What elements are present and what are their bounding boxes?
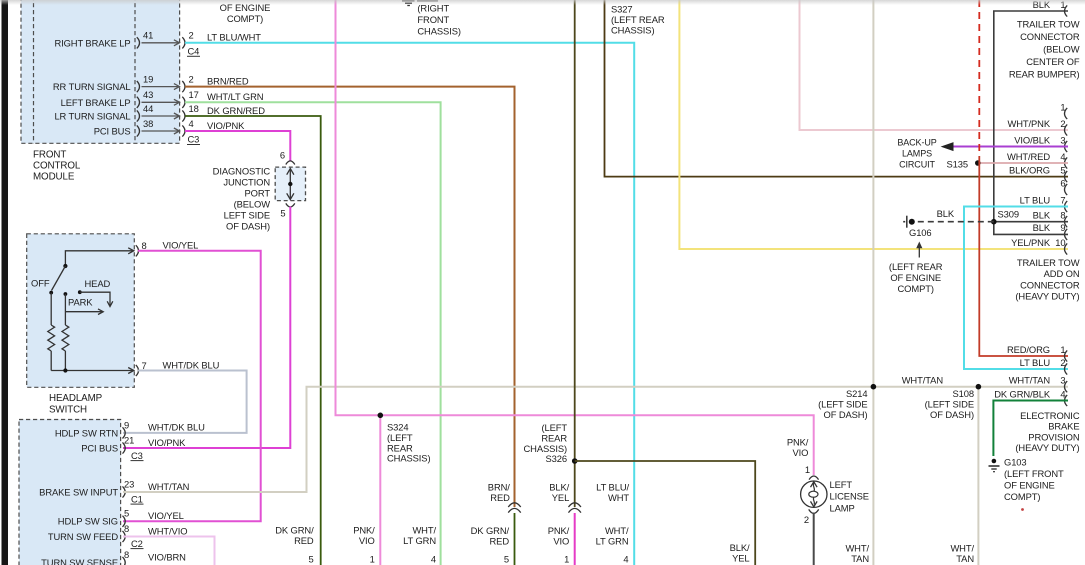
heavy duty connector pin 4 DK GRN/BLK	[1065, 395, 1068, 406]
svg-text:3: 3	[1060, 134, 1065, 145]
svg-text:1: 1	[1060, 101, 1065, 112]
svg-text:RR TURN SIGNAL: RR TURN SIGNAL	[53, 81, 131, 92]
DJP top connector arc	[286, 161, 295, 165]
svg-text:1: 1	[805, 464, 810, 475]
svg-text:RED: RED	[490, 492, 510, 503]
svg-text:8: 8	[1060, 210, 1065, 221]
svg-text:BLK: BLK	[1033, 222, 1051, 233]
svg-text:BLK/: BLK/	[549, 481, 569, 492]
svg-text:LT BLU/WHT: LT BLU/WHT	[207, 32, 261, 43]
svg-text:(LEFT: (LEFT	[541, 422, 567, 433]
trailer tow pin 7 LT BLU	[1065, 201, 1068, 212]
svg-text:2: 2	[1060, 357, 1065, 368]
HEAD arm with down arrow	[80, 292, 110, 306]
splice S108 dot	[976, 384, 982, 390]
left license lamp filament	[813, 483, 814, 491]
svg-text:DIAGNOSTIC: DIAGNOSTIC	[213, 166, 271, 177]
svg-text:WHT/TAN: WHT/TAN	[148, 481, 189, 492]
svg-text:BACK-UP: BACK-UP	[897, 138, 936, 148]
svg-text:19: 19	[143, 73, 153, 84]
wire LT BLU/WHT (FCM 2 -> bottom, x634)	[185, 43, 634, 565]
svg-text:BRAKE SW INPUT: BRAKE SW INPUT	[39, 486, 118, 497]
splice S108 vertical below	[977, 387, 979, 565]
wire BLK/YEL from top to S326	[574, 0, 576, 507]
trailer tow pin 8 BLK	[1065, 216, 1068, 227]
heavy duty connector pin 2 LT BLU	[1065, 363, 1068, 374]
svg-text:4: 4	[623, 554, 628, 565]
svg-text:RED/ORG: RED/ORG	[1007, 344, 1050, 355]
svg-text:7: 7	[1060, 194, 1065, 205]
wire WHT/DK BLU (switch 7 -> module 9)	[123, 371, 247, 433]
svg-text:FRONT: FRONT	[417, 14, 449, 25]
svg-text:WHT/TAN: WHT/TAN	[1009, 375, 1050, 386]
svg-text:WHT/LT GRN: WHT/LT GRN	[207, 91, 263, 102]
svg-text:5: 5	[504, 554, 509, 565]
front control module box fill	[21, 0, 180, 143]
trailer tow connector bracket wire BLK pin1 + bus	[994, 11, 1068, 222]
lower module box fill	[19, 420, 121, 565]
svg-text:18: 18	[189, 103, 199, 114]
wire DK GRN/BLK (pin 4 -> G103)	[993, 401, 1068, 457]
svg-text:5: 5	[1060, 164, 1065, 175]
trailer tow pin 1 BLK	[1065, 5, 1068, 16]
svg-text:RIGHT BRAKE LP: RIGHT BRAKE LP	[54, 37, 130, 48]
svg-text:TURN SW SENSE: TURN SW SENSE	[41, 557, 118, 565]
left license lamp top arc	[809, 476, 819, 480]
svg-text:CONNECTOR: CONNECTOR	[1020, 279, 1080, 290]
svg-text:G106: G106	[909, 227, 932, 238]
svg-text:PCI BUS: PCI BUS	[94, 126, 131, 137]
trailer tow pin 5 BLK/ORG	[1065, 171, 1068, 182]
svg-text:WHT/PNK: WHT/PNK	[1007, 118, 1050, 129]
PARK arm with right arrow	[65, 311, 102, 313]
svg-text:OF ENGINE: OF ENGINE	[1004, 480, 1055, 491]
svg-text:(LEFT: (LEFT	[387, 432, 413, 443]
heavy duty connector pin 1 RED/ORG	[1065, 350, 1068, 361]
svg-text:8: 8	[124, 549, 129, 560]
resistor right (PARK leg)	[62, 325, 69, 351]
svg-text:CHASSIS): CHASSIS)	[387, 453, 430, 464]
front control module inner dashed line left	[33, 0, 35, 143]
svg-text:S214: S214	[846, 388, 868, 399]
svg-text:OFF: OFF	[31, 278, 50, 289]
svg-text:RED: RED	[490, 536, 510, 547]
wire YEL/PNK from top to pin 10	[679, 0, 1068, 249]
svg-text:S135: S135	[947, 158, 969, 169]
svg-text:LEFT BRAKE LP: LEFT BRAKE LP	[61, 97, 131, 108]
wire WHT/PNK from top to pin 2	[800, 0, 1069, 130]
wire VIO/PNK (FCM 4 -> diagnostic junction port)	[185, 131, 290, 161]
svg-text:PNK/: PNK/	[548, 525, 570, 536]
wire VIO/PNK (DJP -> module pin 21)	[123, 207, 290, 448]
svg-text:OF ENGINE: OF ENGINE	[890, 272, 941, 283]
svg-text:WHT/: WHT/	[845, 543, 869, 554]
switch pivot contact dot	[63, 264, 67, 268]
svg-text:1: 1	[370, 554, 375, 565]
svg-text:CIRCUIT: CIRCUIT	[899, 160, 935, 170]
HEAD contact dot	[78, 290, 82, 294]
svg-text:4: 4	[1060, 388, 1065, 399]
svg-text:(BELOW: (BELOW	[1043, 44, 1080, 55]
svg-text:C2: C2	[131, 538, 143, 549]
svg-text:PNK/: PNK/	[787, 436, 809, 447]
svg-text:MODULE: MODULE	[33, 172, 75, 183]
svg-text:VIO: VIO	[792, 447, 808, 458]
svg-text:WHT/TAN: WHT/TAN	[902, 375, 943, 386]
wire BLK pin 8 to S309	[994, 221, 1068, 223]
wire BLK pin 9 to S309	[994, 222, 1068, 235]
svg-text:WHT/VIO: WHT/VIO	[148, 525, 187, 536]
trailer tow pin 3 VIO/BLK	[1065, 141, 1068, 152]
trailer tow pin 1	[1065, 108, 1068, 119]
svg-text:WHT/: WHT/	[950, 543, 974, 554]
wire PNK/VIO below chevron	[574, 513, 576, 565]
DJP internal line with arrows	[289, 169, 291, 199]
svg-text:COMPT): COMPT)	[227, 13, 263, 24]
svg-text:LAMP: LAMP	[830, 502, 855, 513]
svg-text:LT GRN: LT GRN	[596, 536, 629, 547]
wire BLK dashed (S309 -> G106)	[913, 221, 994, 223]
wire DK GRN/RED (FCM 18 -> bottom, x320.7)	[185, 116, 321, 565]
front control module inner dashed line right	[134, 0, 136, 143]
svg-text:(LEFT REAR: (LEFT REAR	[611, 14, 665, 25]
svg-text:2: 2	[189, 30, 194, 41]
DJP box dashed border	[275, 167, 305, 201]
color change BRN/RED -> DK GRN/RED	[508, 503, 521, 507]
svg-text:VIO/YEL: VIO/YEL	[163, 240, 199, 251]
svg-text:LICENSE: LICENSE	[830, 491, 869, 502]
splice S326 dot	[572, 458, 578, 464]
svg-text:HDLP SW RTN: HDLP SW RTN	[55, 427, 118, 438]
svg-text:PARK: PARK	[68, 297, 93, 308]
svg-text:VIO: VIO	[359, 535, 375, 546]
svg-text:REAR: REAR	[541, 432, 567, 443]
svg-text:C3: C3	[131, 450, 143, 461]
switch lever to OFF	[52, 266, 66, 291]
heavy duty connector pin 3 WHT/TAN	[1065, 381, 1068, 392]
svg-text:6: 6	[280, 149, 285, 160]
svg-text:FRONT: FRONT	[33, 150, 66, 161]
trailer tow pin 4 WHT/RED	[1065, 157, 1068, 168]
svg-text:S324: S324	[387, 422, 409, 433]
svg-text:LT BLU: LT BLU	[1020, 194, 1051, 205]
svg-text:LT GRN: LT GRN	[403, 535, 436, 546]
splice S135 dot	[975, 160, 981, 166]
svg-text:BLK: BLK	[937, 208, 955, 219]
svg-text:CHASSIS): CHASSIS)	[524, 443, 567, 454]
OFF position dot	[49, 291, 53, 295]
trailer tow pin 9 BLK	[1065, 229, 1068, 240]
svg-text:CHASSIS): CHASSIS)	[417, 25, 460, 36]
svg-text:(LEFT SIDE: (LEFT SIDE	[818, 398, 867, 409]
svg-text:VIO/BRN: VIO/BRN	[148, 551, 186, 562]
svg-text:9: 9	[1060, 222, 1065, 233]
svg-text:1: 1	[1060, 344, 1065, 355]
G106 location arrow	[918, 246, 920, 258]
svg-text:6: 6	[1060, 177, 1065, 188]
svg-text:REAR: REAR	[387, 442, 413, 453]
headlamp switch box fill	[27, 234, 135, 387]
svg-text:LT BLU/: LT BLU/	[596, 481, 629, 492]
svg-text:CONTROL: CONTROL	[33, 161, 81, 172]
left license lamp bulb circle	[801, 481, 827, 507]
svg-text:LR TURN SIGNAL: LR TURN SIGNAL	[54, 111, 130, 122]
svg-text:HEAD: HEAD	[85, 278, 111, 289]
lower module box dashed border	[19, 420, 121, 565]
svg-text:5: 5	[308, 554, 313, 565]
svg-text:RED: RED	[294, 535, 314, 546]
svg-text:ADD ON: ADD ON	[1044, 268, 1080, 279]
svg-text:BRN/RED: BRN/RED	[207, 75, 249, 86]
trailer tow pin 6	[1065, 184, 1068, 195]
svg-text:C1: C1	[131, 493, 143, 504]
svg-text:4: 4	[189, 118, 194, 129]
svg-text:WHT: WHT	[608, 492, 629, 503]
svg-text:VIO/PNK: VIO/PNK	[207, 120, 245, 131]
svg-text:17: 17	[189, 89, 199, 100]
svg-text:9: 9	[124, 419, 129, 430]
svg-text:10: 10	[1055, 237, 1065, 248]
svg-text:OF DASH): OF DASH)	[824, 409, 868, 420]
svg-text:BLK: BLK	[1033, 210, 1051, 221]
svg-text:WHT/: WHT/	[605, 525, 629, 536]
svg-text:OF DASH): OF DASH)	[226, 221, 270, 232]
svg-text:7: 7	[142, 360, 147, 371]
svg-text:WHT/RED: WHT/RED	[1007, 151, 1050, 162]
svg-text:PORT: PORT	[245, 188, 271, 199]
svg-text:LEFT SIDE: LEFT SIDE	[224, 210, 270, 221]
svg-text:LAMPS: LAMPS	[902, 149, 932, 159]
splice S324 dot	[378, 413, 384, 419]
svg-text:(HEAVY DUTY): (HEAVY DUTY)	[1015, 291, 1079, 302]
wire BRN/RED (FCM 2 -> x514.5 down to chevron)	[185, 87, 515, 507]
splice S214 dot	[871, 384, 877, 390]
left license lamp bottom arc	[809, 509, 819, 513]
left black border bar	[2, 0, 9, 565]
svg-text:2: 2	[1060, 118, 1065, 129]
svg-text:DK GRN/RED: DK GRN/RED	[207, 105, 265, 116]
svg-text:HEADLAMP: HEADLAMP	[49, 393, 103, 404]
svg-text:VIO/YEL: VIO/YEL	[148, 510, 184, 521]
svg-text:S309: S309	[998, 209, 1020, 220]
svg-text:4: 4	[431, 554, 436, 565]
svg-text:COMPT): COMPT)	[898, 283, 934, 294]
svg-text:8: 8	[124, 523, 129, 534]
svg-text:TRAILER TOW: TRAILER TOW	[1017, 257, 1080, 268]
svg-text:TAN: TAN	[956, 553, 974, 564]
wire BLK (lamp pin 2 down)	[813, 513, 815, 565]
svg-text:LEFT: LEFT	[830, 479, 853, 490]
wire WHT/RED (S135 -> pin 4)	[978, 162, 1068, 164]
svg-text:3: 3	[1060, 375, 1065, 386]
wire WHT/VIO (module TURN SW FEED 8)	[123, 537, 215, 565]
wire WHT/LT GRN (FCM 17 -> bottom, x440.6)	[185, 102, 441, 565]
trailer tow pin 2 WHT/PNK	[1065, 124, 1068, 135]
svg-text:TRAILER TOW: TRAILER TOW	[1017, 19, 1080, 30]
PARK contact dot	[64, 292, 68, 296]
DJP junction dot	[288, 182, 292, 186]
svg-text:2: 2	[189, 73, 194, 84]
svg-text:44: 44	[143, 103, 153, 114]
svg-text:DK GRN/: DK GRN/	[275, 525, 314, 536]
svg-text:BRAKE: BRAKE	[1048, 421, 1079, 432]
wire RED/ORG (S135 -> heavy duty pin 1)	[979, 156, 1068, 356]
switch pin 7 bracket/labels	[136, 365, 139, 376]
svg-text:YEL: YEL	[732, 553, 749, 564]
svg-text:COMPT): COMPT)	[1004, 491, 1040, 502]
splice S309 dot	[991, 219, 997, 225]
svg-text:S327: S327	[611, 4, 633, 15]
ground (right front chassis) symbol	[402, 0, 415, 2]
svg-text:(LEFT FRONT: (LEFT FRONT	[1004, 468, 1064, 479]
trailer tow pin 10 YEL/PNK	[1065, 243, 1068, 254]
svg-text:HDLP SW SIG: HDLP SW SIG	[58, 516, 118, 527]
wire PNK/VIO from top via S324 to license lamp	[336, 0, 814, 475]
ground G103 symbol	[992, 459, 997, 464]
svg-text:8: 8	[142, 240, 147, 251]
DJP bottom connector arc	[286, 203, 295, 207]
svg-text:C3: C3	[188, 134, 200, 145]
ground label fragments	[417, 0, 438, 2]
svg-text:VIO: VIO	[553, 536, 569, 547]
DJP box fill	[275, 167, 305, 201]
svg-text:SWITCH: SWITCH	[49, 405, 87, 416]
svg-text:DK GRN/BLK: DK GRN/BLK	[994, 388, 1051, 399]
svg-text:YEL/PNK: YEL/PNK	[1011, 237, 1051, 248]
wire S327 BLK/ORG vertical	[605, 0, 1069, 177]
svg-text:(HEAVY DUTY): (HEAVY DUTY)	[1015, 442, 1079, 453]
svg-text:(BELOW: (BELOW	[234, 199, 271, 210]
svg-text:S108: S108	[953, 388, 975, 399]
svg-text:(LEFT SIDE: (LEFT SIDE	[925, 398, 974, 409]
wire VIO/YEL (switch 8 -> module 5)	[123, 251, 261, 522]
svg-text:BRN/: BRN/	[488, 481, 510, 492]
switch bottom junction dot	[63, 368, 67, 372]
svg-text:43: 43	[143, 89, 153, 100]
svg-text:23: 23	[124, 478, 134, 489]
stray red mark	[1021, 508, 1024, 511]
svg-text:JUNCTION: JUNCTION	[223, 177, 270, 188]
svg-text:WHT/DK BLU: WHT/DK BLU	[163, 359, 220, 370]
svg-text:(LEFT REAR: (LEFT REAR	[889, 261, 943, 272]
wire BLK/YEL branch (S326 -> down at x755)	[575, 461, 756, 565]
svg-text:DK GRN/: DK GRN/	[471, 525, 510, 536]
svg-text:TURN SW FEED: TURN SW FEED	[48, 531, 118, 542]
switch bottom rail	[51, 370, 133, 372]
svg-text:S326: S326	[546, 453, 568, 464]
svg-text:CHASSIS): CHASSIS)	[611, 25, 654, 36]
svg-text:ELECTRONIC: ELECTRONIC	[1020, 410, 1080, 421]
svg-text:OF DASH): OF DASH)	[930, 409, 974, 420]
svg-text:VIO/PNK: VIO/PNK	[148, 437, 186, 448]
front control module box dashed border	[21, 0, 180, 143]
wire LT BLU (pin 7 -> heavy duty pin 2)	[964, 207, 1068, 370]
svg-text:BLK/ORG: BLK/ORG	[1009, 164, 1050, 175]
wire WHT/TAN (module 23 -> S214/S108 rail)	[123, 387, 1068, 492]
svg-text:WHT/DK BLU: WHT/DK BLU	[148, 422, 205, 433]
switch pin 8 bracket/labels	[136, 245, 139, 256]
wire VIO/BLK to back-up lamps	[953, 145, 1068, 147]
svg-text:CONNECTOR: CONNECTOR	[1020, 31, 1080, 42]
svg-text:5: 5	[280, 208, 285, 219]
wire RED dashed from top	[978, 0, 980, 156]
svg-text:WHT/: WHT/	[412, 525, 436, 536]
svg-text:41: 41	[143, 30, 153, 41]
svg-text:1: 1	[564, 554, 569, 565]
ground G106 symbol	[903, 221, 905, 223]
svg-text:VIO/BLK: VIO/BLK	[1014, 134, 1051, 145]
svg-text:PNK/: PNK/	[353, 525, 375, 536]
svg-text:REAR BUMPER): REAR BUMPER)	[1009, 69, 1080, 80]
svg-text:38: 38	[143, 118, 153, 129]
svg-text:PROVISION: PROVISION	[1028, 431, 1079, 442]
wire DK GRN/RED below chevron	[514, 513, 516, 565]
svg-text:4: 4	[1060, 151, 1065, 162]
svg-text:LT BLU: LT BLU	[1020, 357, 1051, 368]
svg-text:2: 2	[804, 514, 809, 525]
svg-text:YEL: YEL	[552, 492, 569, 503]
color change BLK/YEL -> PNK/VIO	[568, 503, 581, 507]
wire WHT/TAN vertical (top -> S214 -> bottom)	[872, 0, 874, 565]
svg-text:PCI BUS: PCI BUS	[81, 442, 118, 453]
svg-text:C4: C4	[188, 46, 200, 57]
svg-text:CENTER OF: CENTER OF	[1026, 56, 1080, 67]
headlamp switch box dashed border	[27, 234, 135, 387]
svg-text:21: 21	[124, 434, 134, 445]
svg-text:5: 5	[124, 508, 129, 519]
svg-text:G103: G103	[1004, 457, 1027, 468]
switch top feed wire	[65, 251, 133, 266]
resistor left (OFF leg)	[50, 293, 52, 325]
svg-text:BLK/: BLK/	[730, 542, 750, 553]
svg-text:TAN: TAN	[851, 553, 869, 564]
wire PNK/VIO branch S324 down	[379, 415, 381, 565]
